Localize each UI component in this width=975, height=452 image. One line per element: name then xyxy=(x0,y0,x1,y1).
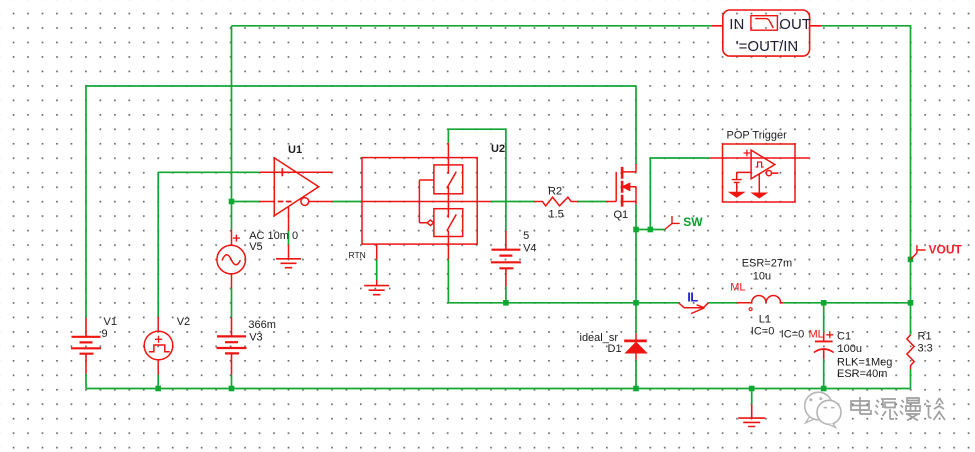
svg-text:ML: ML xyxy=(809,329,824,341)
wire V5 top xyxy=(231,202,233,230)
diode D1 xyxy=(624,333,647,360)
wire minus input xyxy=(232,201,260,203)
svg-text:U1: U1 xyxy=(288,144,302,156)
wire SW line mid xyxy=(709,302,737,304)
node SW line / D1 junction xyxy=(633,300,639,306)
wire C1 bottom xyxy=(823,359,825,388)
wire D1 top xyxy=(635,303,637,333)
svg-text:V2: V2 xyxy=(177,316,190,328)
svg-text:V5: V5 xyxy=(249,241,262,253)
wire feedback vertical to comparator - input xyxy=(231,26,233,202)
wire plus input horizontal xyxy=(158,171,259,173)
node C1 top junction xyxy=(821,300,827,306)
wire R1 top xyxy=(910,303,912,335)
pop trigger block xyxy=(710,144,810,202)
wire ground rail bottom xyxy=(86,388,911,390)
wire R1 bottom xyxy=(910,369,912,388)
svg-text:RLK=1Meg: RLK=1Meg xyxy=(837,356,892,368)
wire U2 top pin to V4 (U shape) xyxy=(448,129,506,231)
switch block U2 xyxy=(362,143,491,286)
wire RTN stub xyxy=(376,260,378,281)
wire SW to POP trigger xyxy=(650,158,709,230)
svg-text:D1: D1 xyxy=(608,343,622,355)
svg-text:IL: IL xyxy=(687,289,698,304)
wire Q1 source down xyxy=(635,205,637,303)
svg-text:SW: SW xyxy=(683,215,703,229)
svg-text:V3: V3 xyxy=(249,332,262,344)
svg-text:C1: C1 xyxy=(837,331,851,343)
ground bottom rail xyxy=(738,405,765,427)
svg-text:POP Trigger: POP Trigger xyxy=(727,130,788,142)
svg-text:ESR=27m: ESR=27m xyxy=(742,258,792,270)
probe IL (current) xyxy=(679,303,709,314)
svg-text:ML: ML xyxy=(730,282,745,294)
wire V2 to plus input vertical xyxy=(157,172,159,317)
wire D1 bottom xyxy=(635,360,637,389)
svg-text:100u: 100u xyxy=(838,343,862,355)
ground U1 xyxy=(276,259,301,268)
wire SW probe branch xyxy=(636,229,665,231)
watermark text xyxy=(851,397,945,421)
node D1 bottom junction xyxy=(633,386,639,392)
wire V1 bottom xyxy=(85,374,87,389)
inductor L1 xyxy=(737,296,783,311)
resistor R1 xyxy=(907,335,914,369)
node V3 bottom junction xyxy=(229,386,235,392)
bode probe block IN/OUT xyxy=(712,10,821,56)
svg-text:1.5: 1.5 xyxy=(549,209,564,221)
svg-text:R1: R1 xyxy=(918,331,932,343)
capacitor C1 xyxy=(814,331,834,359)
svg-text:5: 5 xyxy=(523,230,529,242)
svg-text:V4: V4 xyxy=(523,243,536,255)
svg-text:IN: IN xyxy=(729,16,744,33)
battery V4 xyxy=(491,231,521,287)
battery V1 xyxy=(71,318,101,374)
svg-text:ESR=40m: ESR=40m xyxy=(837,368,887,380)
wire U1 ground pin middle xyxy=(288,231,290,245)
wire top feedback horizontal xyxy=(232,25,712,27)
wire V1 top vertical xyxy=(85,86,87,318)
wire input rail from V1 corner xyxy=(86,85,636,87)
svg-text:366m: 366m xyxy=(248,319,276,331)
node VOUT wire junction xyxy=(908,300,914,306)
node ground rail junction xyxy=(749,386,755,392)
wire U2 output to R2 xyxy=(491,201,534,203)
wire ground stub bottom xyxy=(751,389,753,405)
voltage source V2 (pulse) xyxy=(144,317,173,375)
transistor Q1 (NMOS) xyxy=(606,164,636,207)
probe VOUT xyxy=(911,245,926,259)
wire OUT to VOUT vertical xyxy=(821,26,911,303)
wire U2 bottom to SW line xyxy=(448,260,678,303)
svg-text:Q1: Q1 xyxy=(614,209,629,221)
wire SW line right to VOUT node xyxy=(783,302,911,304)
svg-text:10u: 10u xyxy=(753,271,771,283)
svg-text:AC 10m 0: AC 10m 0 xyxy=(249,230,298,242)
wire V3 bottom xyxy=(231,375,233,389)
ground RTN xyxy=(364,286,389,295)
svg-text:VOUT: VOUT xyxy=(929,243,963,257)
probe SW xyxy=(665,216,680,230)
node minus input junction xyxy=(229,199,235,205)
node C1 bottom junction xyxy=(821,386,827,392)
wire V2 bottom xyxy=(157,375,159,389)
wire C1 top xyxy=(823,303,825,333)
battery V3 xyxy=(217,317,247,374)
watermark logo xyxy=(805,392,841,427)
node SW probe junction xyxy=(648,227,654,233)
wire R2 to Q1 gate xyxy=(578,201,606,203)
svg-text:9: 9 xyxy=(102,328,108,340)
node V2 bottom junction xyxy=(155,386,161,392)
wire U1 output to U2 xyxy=(333,201,362,203)
node V4 bottom junction xyxy=(503,300,509,306)
node VOUT probe junction xyxy=(908,257,914,263)
svg-text:IC=0: IC=0 xyxy=(781,329,805,341)
svg-text:V1: V1 xyxy=(104,316,117,328)
resistor R2 xyxy=(534,197,578,206)
svg-text:U2: U2 xyxy=(491,143,505,155)
wire V4 bottom xyxy=(505,287,507,303)
svg-text:'=OUT/IN: '=OUT/IN xyxy=(736,38,798,55)
op-amp U1 xyxy=(260,158,333,259)
svg-text:3.3: 3.3 xyxy=(918,343,933,355)
node Q1 source junction xyxy=(633,227,639,233)
svg-text:RTN: RTN xyxy=(349,250,366,260)
svg-text:OUT: OUT xyxy=(779,16,811,33)
wire V5 to V3 xyxy=(231,288,233,317)
voltage source V5 (AC) xyxy=(217,230,246,288)
svg-text:IC=0: IC=0 xyxy=(751,325,775,337)
svg-text:R2: R2 xyxy=(548,186,562,198)
svg-text:L1: L1 xyxy=(759,313,771,325)
wire Q1 drain drop xyxy=(635,86,637,164)
